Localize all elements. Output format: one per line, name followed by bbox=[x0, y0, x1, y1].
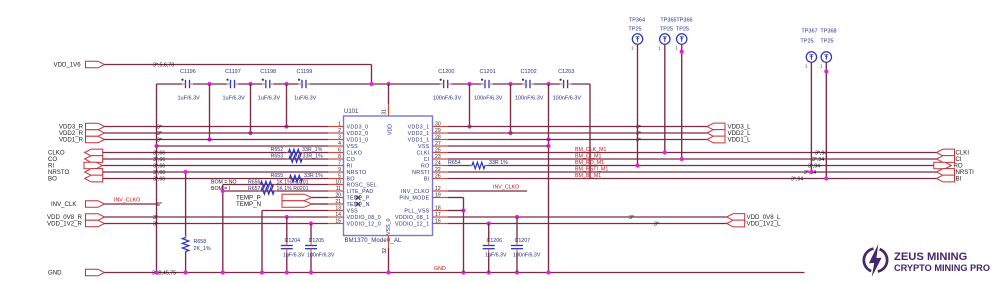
svg-text:PIN_MODE: PIN_MODE bbox=[399, 196, 429, 202]
capacitor C1202 100nF/6.3V bbox=[515, 69, 544, 102]
svg-text:TP25: TP25 bbox=[676, 27, 689, 33]
svg-text:RI: RI bbox=[347, 164, 353, 170]
port CLKO bbox=[48, 149, 103, 156]
svg-text:VDD3_1: VDD3_1 bbox=[408, 125, 430, 131]
port NRSTI bbox=[937, 169, 975, 176]
resistor R654 33R 1% bbox=[448, 160, 508, 169]
svg-text:3*: 3* bbox=[654, 221, 659, 227]
svg-text:VSS_0: VSS_0 bbox=[386, 218, 392, 235]
svg-text:2: 2 bbox=[338, 128, 341, 134]
svg-text:27: 27 bbox=[435, 141, 441, 147]
capacitor C1205 100nF/6.3V bbox=[305, 224, 335, 273]
wire CLKI pin25 to CLKI port bbox=[448, 150, 937, 156]
wire CO row to chip bbox=[103, 157, 328, 163]
svg-text:BOM = NO: BOM = NO bbox=[211, 179, 237, 185]
port CLKI bbox=[937, 149, 970, 156]
svg-text:1: 1 bbox=[675, 46, 678, 51]
junction dots on GND rail bbox=[154, 270, 550, 274]
wire cap-row right end drop x=590 bbox=[589, 84, 591, 179]
svg-text:VDD2_0: VDD2_0 bbox=[347, 131, 369, 137]
wire NRSTO row to chip bbox=[103, 170, 328, 176]
svg-text:C1207: C1207 bbox=[515, 238, 531, 244]
svg-text:17: 17 bbox=[435, 212, 441, 218]
svg-text:1: 1 bbox=[338, 121, 341, 127]
wire VDD3_R to pin1 bbox=[105, 124, 329, 130]
wire RI row to chip bbox=[103, 163, 328, 169]
svg-text:VSS: VSS bbox=[347, 209, 359, 215]
wire VDD3_1 pin30 to VDD3_L bbox=[448, 124, 707, 130]
wire drop cap-row to VDD1_0 row bbox=[207, 84, 211, 142]
wire GND rail bbox=[105, 266, 805, 277]
svg-text:1: 1 bbox=[631, 46, 634, 51]
svg-text:21: 21 bbox=[335, 199, 341, 205]
capacitor C1206 1uF/6.3V bbox=[483, 224, 507, 273]
svg-text:VDD_1V6: VDD_1V6 bbox=[54, 62, 82, 69]
port CI bbox=[937, 156, 962, 163]
port VDD_1V2_R bbox=[47, 220, 105, 227]
wire CI pin23 to CI port bbox=[448, 157, 937, 163]
wire VDD2_R to pin2 bbox=[105, 131, 329, 137]
wire VDD1_1 pin28 to VDD1_L bbox=[448, 137, 707, 143]
svg-text:VDDIO_08_0: VDDIO_08_0 bbox=[347, 215, 382, 221]
svg-text:1uF/6.3V: 1uF/6.3V bbox=[223, 96, 246, 102]
wire VDD_0V8_R to pin14 bbox=[105, 215, 329, 221]
svg-text:INV_CLKO: INV_CLKO bbox=[114, 198, 140, 204]
wire VDD2_1 pin29 to VDD2_L bbox=[448, 131, 707, 137]
wire drop cap-row to VDD3_0 row bbox=[284, 84, 288, 129]
svg-text:BM_RSTI_M1: BM_RSTI_M1 bbox=[575, 167, 608, 173]
svg-text:3*: 3* bbox=[636, 124, 641, 130]
svg-text:C1206: C1206 bbox=[487, 238, 503, 244]
svg-text:PLL_VSS: PLL_VSS bbox=[404, 209, 429, 215]
U101 top pin 31 VDD bbox=[382, 84, 394, 135]
svg-text:VSS: VSS bbox=[347, 144, 359, 150]
svg-text:19: 19 bbox=[435, 192, 441, 198]
svg-text:VDD1_0: VDD1_0 bbox=[347, 138, 369, 144]
wire VDD_1V2_R to pin15 bbox=[105, 221, 329, 227]
svg-text:23: 23 bbox=[435, 154, 441, 160]
net label BM_BI_M1 bbox=[575, 173, 601, 179]
svg-text:3*,94: 3*,94 bbox=[791, 176, 803, 182]
svg-text:7: 7 bbox=[338, 160, 341, 166]
wire PLL_VSS pin18 bbox=[448, 210, 464, 212]
svg-text:25: 25 bbox=[435, 147, 441, 153]
svg-text:1uF/6.3V: 1uF/6.3V bbox=[178, 96, 201, 102]
svg-text:24: 24 bbox=[435, 160, 441, 166]
svg-text:VDDIO_12_0: VDDIO_12_0 bbox=[347, 222, 382, 228]
svg-text:3*: 3* bbox=[157, 202, 162, 208]
svg-text:CI: CI bbox=[424, 157, 430, 163]
capacitor C1197 1uF/6.3V bbox=[223, 69, 246, 102]
svg-text:VDD_1V2_L: VDD_1V2_L bbox=[747, 221, 781, 228]
svg-text:3*,66: 3*,66 bbox=[153, 157, 165, 163]
svg-text:1uF/6.3V: 1uF/6.3V bbox=[258, 96, 281, 102]
svg-text:100nF/6.3V: 100nF/6.3V bbox=[433, 96, 462, 102]
resistor R655 33R 1% bbox=[271, 173, 324, 182]
port BO bbox=[48, 175, 103, 182]
svg-text:1: 1 bbox=[658, 46, 661, 51]
svg-text:U101: U101 bbox=[344, 109, 359, 115]
wire INV_CLKO from pin12 with net label bbox=[448, 185, 527, 192]
capacitor C1198 1uF/6.3V bbox=[258, 69, 281, 102]
capacitor C1200 100nF/6.3V bbox=[433, 69, 462, 102]
svg-text:1K 1% R0201: 1K 1% R0201 bbox=[277, 186, 309, 192]
svg-text:GND: GND bbox=[434, 266, 446, 272]
svg-text:VDDIO_12_1: VDDIO_12_1 bbox=[395, 222, 430, 228]
svg-text:RO: RO bbox=[421, 164, 430, 170]
svg-text:CRYPTO MINING PRO: CRYPTO MINING PRO bbox=[894, 263, 990, 273]
wire BOM select vertical to GND bbox=[221, 185, 225, 273]
svg-text:22: 22 bbox=[435, 167, 441, 173]
wire VDDIO_08_1 pin17 to VDD_0V8_L bbox=[448, 215, 727, 221]
testpoint TP366 TP25 bbox=[675, 18, 692, 162]
svg-text:3*: 3* bbox=[157, 137, 162, 143]
svg-text:TP368: TP368 bbox=[820, 29, 836, 35]
wire VDD_1V6 horizontal bbox=[105, 64, 372, 66]
svg-text:1uF/6.3V: 1uF/6.3V bbox=[283, 253, 305, 259]
U101 right pins stubs numbers and names bbox=[395, 121, 448, 227]
svg-text:VDDIO_08_1: VDDIO_08_1 bbox=[395, 215, 430, 221]
svg-text:33R 1%: 33R 1% bbox=[304, 173, 323, 179]
svg-text:C1200: C1200 bbox=[438, 69, 454, 75]
svg-text:32: 32 bbox=[382, 248, 388, 254]
port VDD_1V6 bbox=[54, 61, 105, 68]
wire CLKO row to chip bbox=[103, 150, 328, 156]
wire VDD_1V6 vertical drop to cap row bbox=[371, 65, 373, 85]
testpoint TP364 TP25 bbox=[628, 18, 645, 168]
svg-text:GND: GND bbox=[48, 270, 62, 277]
op IC U101 BM1370_Mode0_AL body bbox=[344, 109, 433, 244]
svg-text:6: 6 bbox=[338, 147, 341, 153]
wire drop cap-row to VDD2_0 row bbox=[248, 84, 252, 135]
wire drop cap-row to VDD3_1 row bbox=[467, 84, 471, 129]
svg-text:14: 14 bbox=[335, 212, 341, 218]
svg-text:C1204: C1204 bbox=[285, 238, 301, 244]
svg-text:VSS: VSS bbox=[418, 144, 430, 150]
capacitor C1196 1uF/6.3V bbox=[178, 69, 201, 102]
svg-text:BOM = I: BOM = I bbox=[211, 186, 230, 192]
svg-text:BM_CI_M1: BM_CI_M1 bbox=[575, 154, 602, 160]
wire drop cap-row to VSS via x=548.5 bbox=[546, 84, 550, 273]
wire VDD1_R to pin3 bbox=[105, 137, 329, 143]
svg-text:INV_CLKO: INV_CLKO bbox=[493, 185, 519, 191]
label net pages 3*,5,6,73 bbox=[153, 63, 174, 69]
svg-text:TP25: TP25 bbox=[628, 27, 641, 33]
port TEMP_N bbox=[236, 201, 328, 208]
svg-text:C1203: C1203 bbox=[558, 69, 574, 75]
svg-text:3*: 3* bbox=[153, 215, 158, 221]
svg-text:8: 8 bbox=[338, 154, 341, 160]
svg-text:TEMP_N: TEMP_N bbox=[347, 202, 370, 208]
net label BM_RO_M1 bbox=[575, 160, 604, 166]
port RI bbox=[48, 162, 103, 169]
svg-text:11: 11 bbox=[336, 186, 341, 192]
svg-text:13: 13 bbox=[335, 205, 341, 211]
svg-text:31: 31 bbox=[382, 109, 388, 115]
svg-text:CLKO: CLKO bbox=[347, 151, 363, 157]
svg-text:TP367: TP367 bbox=[801, 29, 817, 35]
port VDD_1V2_L bbox=[727, 220, 781, 227]
svg-text:3*: 3* bbox=[157, 124, 162, 130]
wire ROSC_SEL row bbox=[223, 184, 328, 186]
wire VSS pin27 to vertical bbox=[448, 145, 549, 147]
svg-text:BI: BI bbox=[424, 177, 430, 183]
svg-text:1uF/6.3V: 1uF/6.3V bbox=[485, 253, 507, 259]
svg-text:3*,66: 3*,66 bbox=[153, 150, 165, 156]
svg-text:C1199: C1199 bbox=[297, 69, 313, 75]
resistor R652 33R_1% bbox=[271, 147, 323, 156]
wire drop cap-row to VDD2_1 row bbox=[508, 84, 512, 135]
svg-text:VDD: VDD bbox=[388, 124, 394, 135]
label BOM = NO bbox=[211, 179, 237, 185]
svg-text:1: 1 bbox=[820, 64, 823, 69]
svg-text:15: 15 bbox=[335, 218, 341, 224]
svg-text:R652: R652 bbox=[271, 147, 284, 153]
wire BI pin26 to BI port bbox=[448, 176, 937, 182]
wire BO row to chip bbox=[103, 176, 328, 182]
testpoint TP368 TP25 bbox=[820, 29, 837, 181]
artifact marks on TEMP_P TEMP_N inner labels bbox=[356, 195, 361, 206]
port VDD3_L bbox=[707, 123, 751, 130]
svg-text:CLKI: CLKI bbox=[417, 151, 430, 157]
svg-text:CO: CO bbox=[347, 157, 356, 163]
svg-text:3*: 3* bbox=[153, 221, 158, 227]
capacitor C1203 100nF/6.3V bbox=[553, 69, 582, 102]
svg-text:TP25: TP25 bbox=[820, 39, 833, 45]
port VDD3_R bbox=[59, 123, 105, 130]
port NRSTO bbox=[48, 169, 103, 176]
svg-text:26: 26 bbox=[435, 173, 441, 179]
U101 left pins 1-15 stubs numbers and names bbox=[328, 121, 381, 227]
svg-text:3*,66: 3*,66 bbox=[153, 170, 165, 176]
resistor R657 1K 1% R0201 bbox=[248, 186, 309, 194]
svg-text:3*,94: 3*,94 bbox=[812, 157, 824, 163]
svg-text:20: 20 bbox=[335, 192, 341, 198]
svg-text:33R_1%: 33R_1% bbox=[303, 154, 324, 160]
svg-text:3*,66: 3*,66 bbox=[153, 163, 165, 169]
svg-text:TEMP_P: TEMP_P bbox=[347, 196, 370, 202]
junction dots on cap row bbox=[207, 82, 550, 86]
svg-text:100nF/6.3V: 100nF/6.3V bbox=[515, 96, 544, 102]
port VDD_0V8_L bbox=[727, 214, 781, 221]
svg-text:INV_CLKO: INV_CLKO bbox=[401, 189, 430, 195]
svg-text:VDD_1V2_R: VDD_1V2_R bbox=[47, 221, 82, 228]
svg-text:4: 4 bbox=[338, 141, 341, 147]
svg-text:1K 1% R0201: 1K 1% R0201 bbox=[277, 179, 309, 185]
svg-text:9: 9 bbox=[338, 167, 341, 173]
svg-text:C1202: C1202 bbox=[521, 69, 537, 75]
capacitor C1204 1uF/6.3V bbox=[281, 217, 305, 273]
svg-text:100nF/6.3V: 100nF/6.3V bbox=[553, 96, 582, 102]
svg-text:100nF/6.3V: 100nF/6.3V bbox=[307, 253, 335, 259]
port VDD_0V8_R bbox=[47, 214, 105, 221]
svg-text:3*,66: 3*,66 bbox=[153, 176, 165, 182]
svg-text:BO: BO bbox=[48, 176, 57, 183]
port VDD2_R bbox=[59, 130, 105, 137]
svg-text:R657: R657 bbox=[248, 186, 261, 192]
wire VSS pin4 row bbox=[157, 145, 329, 147]
logo Zeus Mining bbox=[864, 244, 990, 277]
svg-text:INV_CLK: INV_CLK bbox=[51, 201, 76, 208]
svg-text:1: 1 bbox=[805, 64, 808, 69]
port VDD1_R bbox=[59, 136, 105, 143]
resistor R653 33R_1% bbox=[271, 154, 324, 163]
svg-text:BM_RO_M1: BM_RO_M1 bbox=[575, 160, 604, 166]
svg-text:C1198: C1198 bbox=[260, 69, 276, 75]
testpoint TP365 TP25 bbox=[658, 18, 676, 155]
net label BM_CI_M1 bbox=[575, 154, 602, 160]
svg-text:1uF/6.3V: 1uF/6.3V bbox=[294, 96, 317, 102]
svg-text:12: 12 bbox=[435, 186, 441, 192]
svg-text:TP25: TP25 bbox=[660, 27, 673, 33]
net label BM_CLK_M1 bbox=[575, 147, 607, 153]
port GND bbox=[48, 269, 105, 276]
svg-text:18: 18 bbox=[435, 205, 441, 211]
svg-text:NRSTO: NRSTO bbox=[347, 170, 367, 176]
port INV_CLK bbox=[51, 201, 105, 208]
svg-text:TP365: TP365 bbox=[660, 18, 676, 24]
wire VSS pin13 row bbox=[262, 211, 328, 273]
svg-text:C1205: C1205 bbox=[309, 238, 325, 244]
wire RO pin24 through R654 to RO port bbox=[448, 163, 934, 169]
svg-text:BM_CLK_M1: BM_CLK_M1 bbox=[575, 147, 607, 153]
svg-text:R655: R655 bbox=[271, 173, 284, 179]
svg-text:LITE_PAD: LITE_PAD bbox=[347, 189, 374, 195]
svg-text:3*: 3* bbox=[636, 131, 641, 137]
port VDD2_L bbox=[707, 130, 751, 137]
svg-text:33R_1%: 33R_1% bbox=[302, 147, 323, 153]
svg-text:VDD2_1: VDD2_1 bbox=[408, 131, 430, 137]
wire LITE_PAD row bbox=[223, 190, 328, 192]
svg-text:ROSC_SEL: ROSC_SEL bbox=[347, 183, 378, 189]
svg-text:TEMP_N: TEMP_N bbox=[236, 201, 261, 208]
wire NRSTI pin22 to NRSTI port bbox=[448, 170, 937, 176]
wire PIN_MODE pin19 to PLL_VSS vertical to GND bbox=[448, 198, 466, 273]
resistor R656 1K 1% R0201 bbox=[248, 179, 309, 187]
svg-text:TP366: TP366 bbox=[676, 18, 692, 24]
svg-text:BM1370_Mode0_AL: BM1370_Mode0_AL bbox=[345, 238, 402, 244]
svg-text:NRSTI: NRSTI bbox=[412, 170, 429, 176]
svg-text:ZEUS MINING: ZEUS MINING bbox=[894, 251, 968, 263]
svg-text:R658: R658 bbox=[194, 239, 207, 245]
svg-text:3*: 3* bbox=[629, 215, 634, 221]
wire VDDIO_12_1 pin16 to VDD_1V2_L bbox=[448, 221, 727, 227]
port VDD1_L bbox=[707, 136, 751, 143]
svg-text:BI: BI bbox=[956, 176, 962, 183]
svg-text:3*,5,6,73: 3*,5,6,73 bbox=[153, 63, 174, 69]
svg-text:3*: 3* bbox=[636, 137, 641, 143]
svg-text:R653: R653 bbox=[271, 154, 284, 160]
svg-text:VDD3_0: VDD3_0 bbox=[347, 125, 369, 131]
svg-text:30: 30 bbox=[435, 121, 441, 127]
capacitor C1207 100nF/6.3V bbox=[511, 217, 541, 273]
svg-text:C1196: C1196 bbox=[180, 69, 196, 75]
testpoint TP367 TP25 bbox=[800, 29, 817, 175]
port CO bbox=[48, 156, 103, 163]
U101 bottom pin 32 VSS_0 bbox=[382, 218, 392, 272]
capacitor C1201 100nF/6.3V bbox=[474, 69, 503, 102]
svg-text:C1197: C1197 bbox=[225, 69, 241, 75]
svg-text:3: 3 bbox=[338, 134, 341, 140]
port RO bbox=[934, 162, 963, 169]
svg-text:R654: R654 bbox=[448, 160, 461, 166]
svg-text:3*,94: 3*,94 bbox=[808, 163, 820, 169]
svg-text:TP25: TP25 bbox=[800, 39, 813, 45]
svg-text:VDD1_R: VDD1_R bbox=[59, 137, 84, 144]
svg-text:VDD1_1: VDD1_1 bbox=[408, 138, 430, 144]
wire INV_CLK stub with net label INV_CLKO bbox=[105, 198, 162, 208]
svg-text:100nF/6.3V: 100nF/6.3V bbox=[474, 96, 503, 102]
svg-text:16: 16 bbox=[435, 218, 441, 224]
svg-text:VDD1_L: VDD1_L bbox=[728, 137, 752, 144]
svg-text:3*,94: 3*,94 bbox=[815, 150, 827, 156]
label BOM = I bbox=[211, 186, 230, 192]
resistor R658 2K_1% vertical bbox=[182, 170, 210, 273]
svg-text:100nF/6.3V: 100nF/6.3V bbox=[513, 253, 541, 259]
wire VDD cap-row horizontal segments bbox=[157, 83, 591, 85]
capacitor C1199 1uF/6.3V bbox=[294, 69, 317, 102]
svg-text:TP364: TP364 bbox=[629, 18, 645, 24]
port TEMP_P bbox=[236, 194, 328, 201]
svg-text:28: 28 bbox=[435, 134, 441, 140]
svg-text:10: 10 bbox=[335, 179, 341, 185]
port BI bbox=[937, 175, 962, 182]
svg-text:R656: R656 bbox=[248, 179, 261, 185]
svg-text:2K_1%: 2K_1% bbox=[194, 246, 211, 252]
svg-text:29: 29 bbox=[435, 128, 441, 134]
svg-text:BM_BI_M1: BM_BI_M1 bbox=[575, 173, 601, 179]
wire cap-row left end drop to GND x=156.5 bbox=[154, 84, 158, 273]
svg-text:3*: 3* bbox=[157, 131, 162, 137]
svg-text:C1201: C1201 bbox=[480, 69, 496, 75]
svg-text:33R 1%: 33R 1% bbox=[489, 160, 508, 166]
net label BM_RSTI_M1 bbox=[575, 167, 608, 173]
